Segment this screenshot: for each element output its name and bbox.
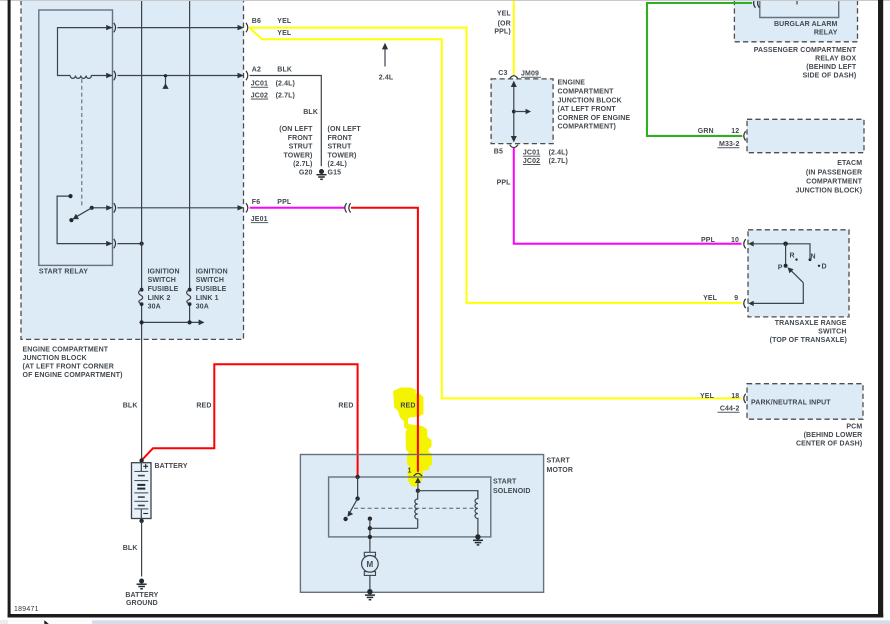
passenger compartment relay box fill	[734, 0, 857, 42]
svg-text:(BEHIND LOWER: (BEHIND LOWER	[804, 432, 863, 439]
engine compartment junction block (C3/B5) dashed box	[491, 79, 553, 144]
svg-text:(2.4L): (2.4L)	[549, 150, 568, 157]
relay mechanical link (dashed)	[81, 79, 83, 207]
svg-text:BLK: BLK	[277, 67, 292, 74]
svg-text:D: D	[822, 264, 827, 271]
svg-text:B6: B6	[252, 18, 261, 25]
svg-text:TOWER): TOWER)	[284, 152, 313, 159]
labels R N P D	[778, 253, 827, 272]
relay pin connector row y=243.6	[106, 241, 112, 246]
engine compartment junction block border (top-left, dashed)	[21, 0, 244, 339]
wire B6 row inside block	[117, 27, 239, 29]
bottom scrollbar strip	[0, 620, 890, 624]
burglar alarm relay label	[774, 21, 838, 36]
start relay box	[39, 10, 113, 265]
svg-text:P: P	[778, 264, 783, 271]
svg-text:TRANSAXLE RANGE: TRANSAXLE RANGE	[775, 320, 847, 327]
fusible link 2 element	[140, 288, 144, 292]
svg-text:N: N	[811, 254, 816, 261]
connector pin 10 arc	[744, 239, 746, 248]
svg-text:GROUND: GROUND	[126, 600, 158, 607]
svg-text:COMPARTMENT): COMPARTMENT)	[558, 124, 616, 131]
ignition switch fusible link 1 label	[196, 268, 228, 310]
svg-text:IGNITION: IGNITION	[148, 268, 180, 275]
ETACM box fill	[747, 119, 864, 152]
battery plus sign	[143, 464, 148, 469]
label YEL 18 C44-2	[700, 393, 739, 413]
svg-text:PASSENGER COMPARTMENT: PASSENGER COMPARTMENT	[754, 47, 857, 54]
relay pin connector row y=207.8	[106, 205, 112, 210]
label A2 BLK JC01 JC02	[251, 67, 295, 100]
svg-text:(2.7L): (2.7L)	[549, 158, 568, 165]
engine compartment junction block (C3/B5) fill	[491, 79, 553, 144]
svg-text:START: START	[547, 458, 571, 465]
battery minus sign	[143, 513, 148, 515]
connector C3 arc	[510, 76, 518, 79]
wire RED battery to start motor	[142, 364, 358, 476]
svg-text:BATTERY: BATTERY	[125, 592, 158, 599]
svg-text:BATTERY: BATTERY	[155, 463, 188, 470]
node battery feed / relay terminal	[140, 242, 144, 246]
solenoid fixed contact stack	[368, 517, 372, 521]
svg-text:SWITCH: SWITCH	[148, 277, 176, 284]
svg-text:STRUT: STRUT	[328, 144, 353, 151]
junction block exit connector A2	[238, 73, 244, 78]
wire A2 row inside block	[117, 75, 239, 77]
relay switch arm	[77, 208, 92, 217]
2.4L pointer arrow	[384, 48, 386, 67]
transaxle range switch label	[770, 320, 847, 344]
connector pin 9 arc	[744, 299, 746, 308]
node P contact	[784, 264, 788, 268]
wire arm to pin 9	[753, 283, 804, 304]
motor ground symbol	[365, 595, 375, 600]
svg-text:BLK: BLK	[303, 109, 318, 116]
JM09 underline	[521, 76, 541, 79]
engine compartment junction block label (bottom-left)	[23, 346, 123, 379]
solenoid switch arm	[350, 499, 358, 513]
svg-text:R: R	[790, 253, 795, 260]
label F6 PPL JE01	[251, 199, 292, 223]
B5 JC02 underline	[523, 163, 540, 166]
wire YEL B6 to transaxle (yel-1)	[249, 28, 741, 303]
relay contact bracket wire	[57, 196, 107, 244]
svg-text:(BEHIND LEFT: (BEHIND LEFT	[806, 64, 857, 71]
transaxle range switch box (dashed)	[748, 230, 849, 317]
wire RED from inline connector to start motor 1	[351, 208, 418, 472]
fusible link 1 wire (vertical)	[189, 0, 191, 289]
svg-text:YEL: YEL	[700, 393, 715, 400]
wire F6 row inside block	[117, 207, 239, 209]
start motor label	[547, 458, 574, 475]
svg-text:SWITCH: SWITCH	[196, 277, 224, 284]
wire PPL B5 to transaxle pin 10	[514, 148, 742, 244]
svg-text:COMPARTMENT: COMPARTMENT	[558, 89, 615, 96]
mouse cursor tip	[44, 620, 49, 624]
relay fixed contact node	[68, 194, 72, 198]
svg-text:CENTER OF DASH): CENTER OF DASH)	[796, 441, 862, 448]
start solenoid box	[329, 477, 491, 537]
transaxle switch arm	[790, 270, 803, 283]
transaxle switch arm arrowhead	[788, 267, 794, 273]
relay pin connector row y=27.6 (arrow + arc)	[106, 25, 112, 30]
wire YEL B6 branch 2.4L to PCM (yel-2)	[249, 28, 741, 399]
hold-in winding ground symbol	[473, 540, 483, 545]
svg-text:COMPARTMENT: COMPARTMENT	[806, 179, 863, 186]
svg-text:PPL: PPL	[277, 199, 292, 206]
svg-text:YEL: YEL	[277, 30, 292, 37]
label ground location 2.4L G15	[328, 126, 362, 176]
ETACM label	[795, 160, 862, 195]
ETACM box (dashed)	[747, 119, 864, 152]
junction block exit connector F6	[238, 205, 244, 210]
svg-text:30A: 30A	[196, 304, 209, 311]
start motor box fill	[300, 455, 543, 593]
svg-text:ENGINE COMPARTMENT: ENGINE COMPARTMENT	[23, 346, 109, 353]
svg-text:YEL: YEL	[497, 11, 512, 18]
start solenoid label	[493, 479, 531, 496]
junction node on A2 wire with feed arrow	[164, 74, 167, 77]
svg-text:YEL: YEL	[703, 295, 718, 302]
svg-text:A2: A2	[252, 67, 261, 74]
svg-text:RED: RED	[196, 403, 211, 410]
svg-text:JUNCTION BLOCK: JUNCTION BLOCK	[23, 355, 87, 362]
ignition switch fusible link 2 label	[148, 268, 180, 310]
svg-text:GRN: GRN	[698, 128, 714, 135]
node N contact	[809, 258, 812, 261]
node on solenoid box bottom	[368, 535, 372, 539]
inline connector at burglar alarm relay (double arc)	[754, 0, 756, 8]
svg-text:10: 10	[731, 237, 739, 244]
JC02 underline	[251, 98, 268, 101]
svg-text:YEL: YEL	[277, 18, 292, 25]
svg-text:(ON LEFT: (ON LEFT	[279, 126, 313, 133]
wire common to P contact	[785, 244, 787, 266]
start motor box	[300, 455, 543, 593]
pin 1 entry arrow into solenoid	[415, 477, 421, 483]
solenoid switch pivot node	[355, 496, 359, 500]
svg-text:CORNER OF ENGINE: CORNER OF ENGINE	[558, 115, 631, 122]
svg-text:ETACM: ETACM	[837, 160, 862, 167]
label B6 YEL	[252, 18, 292, 37]
svg-text:PPL): PPL)	[494, 29, 510, 36]
svg-text:B5: B5	[494, 149, 503, 156]
C44-2 underline	[718, 411, 740, 414]
park/neutral input box (dashed)	[747, 384, 863, 420]
transaxle pin 9 entry arrow	[748, 301, 753, 306]
svg-text:1: 1	[407, 467, 411, 474]
start relay coil box	[58, 28, 112, 76]
svg-text:SWITCH: SWITCH	[818, 328, 846, 335]
connector B5 arc	[510, 145, 518, 148]
wire relay terminal to battery feed	[117, 243, 141, 245]
svg-text:JM09: JM09	[521, 71, 539, 78]
battery ground symbol	[137, 579, 147, 589]
wire BLK battery to ground	[141, 521, 143, 577]
solenoid switch open contact node	[343, 517, 347, 521]
wire winding bus	[418, 491, 478, 497]
svg-text:RED: RED	[400, 403, 415, 410]
node battery positive	[139, 458, 143, 462]
svg-text:PPL: PPL	[497, 180, 512, 187]
connector pin 1 arc	[414, 473, 422, 476]
svg-text:C3: C3	[498, 70, 507, 77]
svg-text:189471: 189471	[14, 606, 39, 613]
wire PPL F6 to inline connector	[250, 207, 345, 209]
engine compartment junction block fill (top-left)	[21, 0, 244, 339]
relay common node	[90, 206, 94, 210]
svg-text:2.4L: 2.4L	[379, 74, 394, 81]
relay switch arm arrowhead	[73, 214, 79, 220]
svg-text:JUNCTION BLOCK): JUNCTION BLOCK)	[795, 188, 862, 195]
ground G20/G15 symbol	[317, 169, 327, 179]
highlighter mark over RED wire	[393, 388, 432, 488]
pull-in winding node	[416, 489, 420, 493]
svg-text:RED: RED	[338, 403, 353, 410]
svg-text:G15: G15	[328, 170, 342, 177]
svg-text:(2.7L): (2.7L)	[276, 93, 295, 100]
svg-text:BLK: BLK	[123, 403, 138, 410]
label ground location 2.7L G20	[279, 126, 313, 176]
svg-text:JUNCTION BLOCK: JUNCTION BLOCK	[558, 97, 622, 104]
svg-text:RELAY BOX: RELAY BOX	[815, 55, 856, 62]
svg-text:TOWER): TOWER)	[328, 152, 357, 159]
svg-text:(AT LEFT FRONT CORNER: (AT LEFT FRONT CORNER	[23, 364, 114, 371]
node battery negative	[139, 519, 143, 523]
junction block exit connector B6	[238, 25, 244, 30]
JE01 underline	[251, 221, 268, 224]
hold-in winding coil	[475, 491, 478, 535]
solenoid switch riser	[357, 477, 359, 499]
svg-text:(IN PASSENGER: (IN PASSENGER	[806, 169, 862, 176]
label GRN 12 M33-2	[698, 128, 740, 148]
label PPL 10	[701, 237, 739, 244]
svg-text:LINK 2: LINK 2	[148, 295, 171, 302]
wire BLK A2 to ground G15	[250, 76, 322, 167]
junction block (C3/B5) label	[558, 80, 631, 131]
burglar alarm relay internal stub	[796, 0, 798, 5]
node R contact	[795, 258, 797, 260]
svg-text:F6: F6	[252, 199, 260, 206]
battery ground label	[125, 592, 158, 607]
solenoid switch arm arrowhead	[347, 511, 353, 517]
svg-text:STRUT: STRUT	[289, 144, 314, 151]
transaxle pin 10 entry arrow and wire	[748, 241, 753, 246]
relay common wire	[92, 207, 108, 209]
pull-in winding coil	[415, 491, 418, 529]
svg-text:JC01: JC01	[523, 150, 540, 157]
svg-text:(AT LEFT FRONT: (AT LEFT FRONT	[558, 106, 617, 113]
hold-in winding ground node	[475, 534, 480, 539]
JC01 underline	[251, 86, 268, 89]
label YEL 9	[703, 295, 738, 302]
svg-text:9: 9	[734, 295, 738, 302]
svg-text:(OR: (OR	[498, 20, 511, 27]
svg-text:C44-2: C44-2	[720, 406, 740, 413]
svg-text:M: M	[367, 560, 374, 569]
svg-text:BLK: BLK	[123, 545, 138, 552]
start relay coil winding	[70, 76, 112, 79]
fusible link 2 wire (vertical)	[141, 0, 143, 289]
svg-text:SIDE OF DASH): SIDE OF DASH)	[803, 72, 857, 79]
motor ground node	[367, 589, 372, 594]
svg-text:START RELAY: START RELAY	[39, 269, 88, 276]
battery	[132, 463, 152, 519]
svg-text:IGNITION: IGNITION	[196, 268, 228, 275]
connector M33-2 arc	[744, 131, 746, 140]
solenoid mechanical link (dashed)	[354, 507, 478, 509]
label B5 JC01 JC02	[494, 149, 568, 165]
svg-text:FUSIBLE: FUSIBLE	[148, 286, 179, 293]
svg-text:PARK/NEUTRAL INPUT: PARK/NEUTRAL INPUT	[751, 399, 831, 406]
label YEL (OR PPL)	[494, 11, 511, 36]
park/neutral input box fill	[747, 384, 863, 420]
svg-text:(2.7L): (2.7L)	[293, 161, 312, 168]
wire junction of fusible links to ignition switch	[142, 321, 200, 323]
left page border bar	[8, 0, 11, 618]
svg-text:START: START	[493, 479, 517, 486]
svg-text:BURGLAR ALARM: BURGLAR ALARM	[774, 21, 838, 28]
svg-text:(TOP OF TRANSAXLE): (TOP OF TRANSAXLE)	[770, 337, 847, 344]
passenger compartment relay box (dashed)	[734, 0, 857, 42]
wire GRN burglar alarm relay to ETACM	[647, 3, 752, 136]
svg-text:LINK 1: LINK 1	[196, 295, 219, 302]
wire YEL (OR PPL) from top	[513, 0, 515, 76]
node transaxle common	[783, 242, 788, 247]
svg-text:RELAY: RELAY	[814, 30, 838, 37]
wire contact to pull-in winding	[370, 527, 418, 529]
svg-text:M33-2: M33-2	[719, 141, 739, 148]
svg-text:(2.4L): (2.4L)	[276, 81, 295, 88]
svg-text:JC02: JC02	[523, 158, 540, 165]
junction block internal bus (double arrow)	[511, 81, 531, 143]
inline connector (double arc)	[345, 203, 347, 212]
node red feed on solenoid edge	[355, 475, 359, 479]
svg-text:JE01: JE01	[251, 216, 268, 223]
svg-text:G20: G20	[299, 170, 313, 177]
transaxle range switch box fill	[748, 230, 849, 317]
svg-text:JC02: JC02	[251, 93, 268, 100]
connector C44-2 arc	[744, 394, 746, 403]
PCM label	[796, 424, 862, 448]
svg-text:30A: 30A	[148, 304, 161, 311]
M33-2 underline	[718, 146, 740, 149]
svg-text:12: 12	[731, 128, 739, 135]
burglar alarm relay box	[760, 0, 839, 18]
svg-text:FRONT: FRONT	[288, 135, 313, 142]
svg-text:OF ENGINE COMPARTMENT): OF ENGINE COMPARTMENT)	[23, 372, 123, 379]
svg-text:(ON LEFT: (ON LEFT	[328, 126, 362, 133]
node D contact	[818, 265, 820, 267]
svg-text:(2.4L): (2.4L)	[328, 161, 347, 168]
svg-text:FUSIBLE: FUSIBLE	[196, 286, 227, 293]
relay pin connector row y=75.5	[106, 73, 112, 78]
svg-text:FRONT: FRONT	[328, 135, 353, 142]
svg-text:18: 18	[731, 393, 739, 400]
arrow to ignition switch (off page)	[199, 320, 205, 326]
svg-text:SOLENOID: SOLENOID	[493, 488, 531, 495]
fusible link 1 element	[188, 288, 192, 292]
bottom page border bar	[8, 614, 884, 618]
svg-text:ENGINE: ENGINE	[558, 80, 586, 87]
top hairline	[0, 0, 890, 1]
passenger compartment relay box label	[754, 47, 857, 80]
svg-text:JC01: JC01	[251, 81, 268, 88]
right page border bar	[878, 0, 883, 618]
svg-text:MOTOR: MOTOR	[547, 467, 574, 474]
relay rest contact node	[69, 218, 73, 222]
wire motor to ground	[369, 575, 371, 590]
svg-text:PPL: PPL	[701, 237, 716, 244]
svg-text:PCM: PCM	[846, 424, 862, 431]
start motor M symbol	[362, 552, 379, 575]
B5 JC01 underline	[523, 155, 540, 158]
